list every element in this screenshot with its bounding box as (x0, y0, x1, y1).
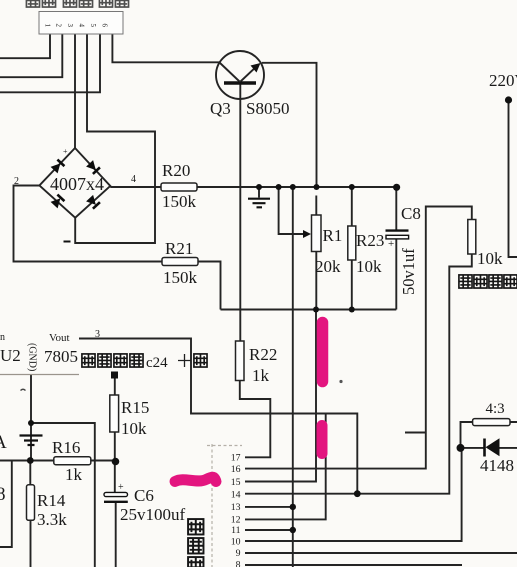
svg-text:8: 8 (0, 484, 6, 505)
svg-text:c24: c24 (146, 355, 168, 371)
svg-text:R1: R1 (323, 226, 343, 245)
svg-text:6: 6 (101, 24, 109, 28)
svg-text:14: 14 (231, 489, 241, 500)
svg-text:10: 10 (231, 536, 241, 547)
svg-text:+: + (118, 482, 124, 493)
svg-text:4: 4 (131, 174, 136, 185)
svg-text:R23: R23 (356, 231, 384, 250)
svg-text:1k: 1k (252, 366, 270, 385)
svg-text:Q3: Q3 (210, 99, 231, 118)
svg-text:150k: 150k (163, 268, 198, 287)
svg-text:R21: R21 (165, 239, 193, 258)
svg-text:U2: U2 (0, 346, 21, 365)
svg-text:4148: 4148 (480, 456, 514, 475)
svg-text:7805: 7805 (44, 347, 78, 366)
svg-text:5: 5 (89, 24, 97, 28)
svg-text:S8050: S8050 (246, 99, 289, 118)
svg-text:R20: R20 (162, 161, 190, 180)
svg-text:220V: 220V (489, 71, 517, 90)
svg-text:12: 12 (231, 515, 241, 526)
svg-text:1: 1 (44, 24, 52, 28)
svg-text:3: 3 (66, 24, 74, 28)
svg-text:R22: R22 (249, 345, 277, 364)
svg-text:4:3: 4:3 (486, 401, 505, 417)
svg-text:11: 11 (231, 525, 241, 536)
svg-text:R15: R15 (121, 398, 149, 417)
svg-text:50v1uf: 50v1uf (399, 248, 418, 295)
svg-text:1k: 1k (65, 465, 83, 484)
svg-text:15: 15 (231, 477, 241, 488)
svg-text:13: 13 (231, 502, 241, 513)
svg-text:150k: 150k (162, 192, 197, 211)
svg-text:17: 17 (231, 453, 241, 464)
svg-text:2: 2 (55, 24, 63, 28)
svg-text:4: 4 (78, 24, 86, 28)
svg-text:3.3k: 3.3k (37, 510, 67, 529)
svg-text:R14: R14 (37, 491, 66, 510)
svg-text:R16: R16 (52, 438, 80, 457)
svg-text:9: 9 (236, 548, 241, 559)
svg-text:C6: C6 (134, 486, 154, 505)
svg-text:(GND): (GND) (27, 343, 38, 371)
svg-text:16: 16 (231, 464, 241, 475)
svg-text:3: 3 (95, 329, 100, 340)
svg-text:20k: 20k (315, 257, 341, 276)
svg-text:10k: 10k (356, 257, 382, 276)
svg-text:A: A (0, 432, 7, 453)
svg-text:8: 8 (236, 560, 241, 567)
svg-text:Vout: Vout (49, 332, 70, 344)
svg-text:n: n (0, 332, 5, 343)
svg-text:+: + (63, 147, 68, 156)
svg-text:10k: 10k (121, 419, 147, 438)
svg-text:4007x4: 4007x4 (50, 174, 104, 194)
svg-text:10k: 10k (477, 249, 503, 268)
svg-text:+: + (388, 238, 394, 250)
svg-text:2: 2 (14, 176, 19, 187)
svg-text:C8: C8 (401, 204, 421, 223)
svg-text:25v100uf: 25v100uf (120, 505, 186, 524)
